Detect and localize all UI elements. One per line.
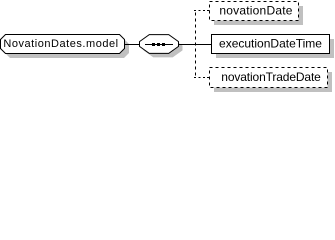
svg-text:novationTradeDate: novationTradeDate <box>221 70 321 84</box>
svg-text:novationDate: novationDate <box>219 4 292 18</box>
wire dashed vertical branch <box>195 10 197 78</box>
element box NovationDates.model <box>1 35 130 59</box>
svg-text:executionDateTime: executionDateTime <box>219 37 322 51</box>
wire dashed to novationTradeDate <box>194 77 210 79</box>
wire dashed to novationDate <box>194 10 210 12</box>
element box novationDate (optional, dashed) <box>210 2 304 26</box>
svg-text:NovationDates.model: NovationDates.model <box>3 38 118 50</box>
element box executionDateTime <box>212 35 335 59</box>
sequence indicator <box>140 35 183 58</box>
wire sequence to executionDateTime <box>178 44 212 46</box>
element box novationTradeDate (optional, dashed) <box>210 68 333 93</box>
wire model to sequence <box>124 44 140 46</box>
